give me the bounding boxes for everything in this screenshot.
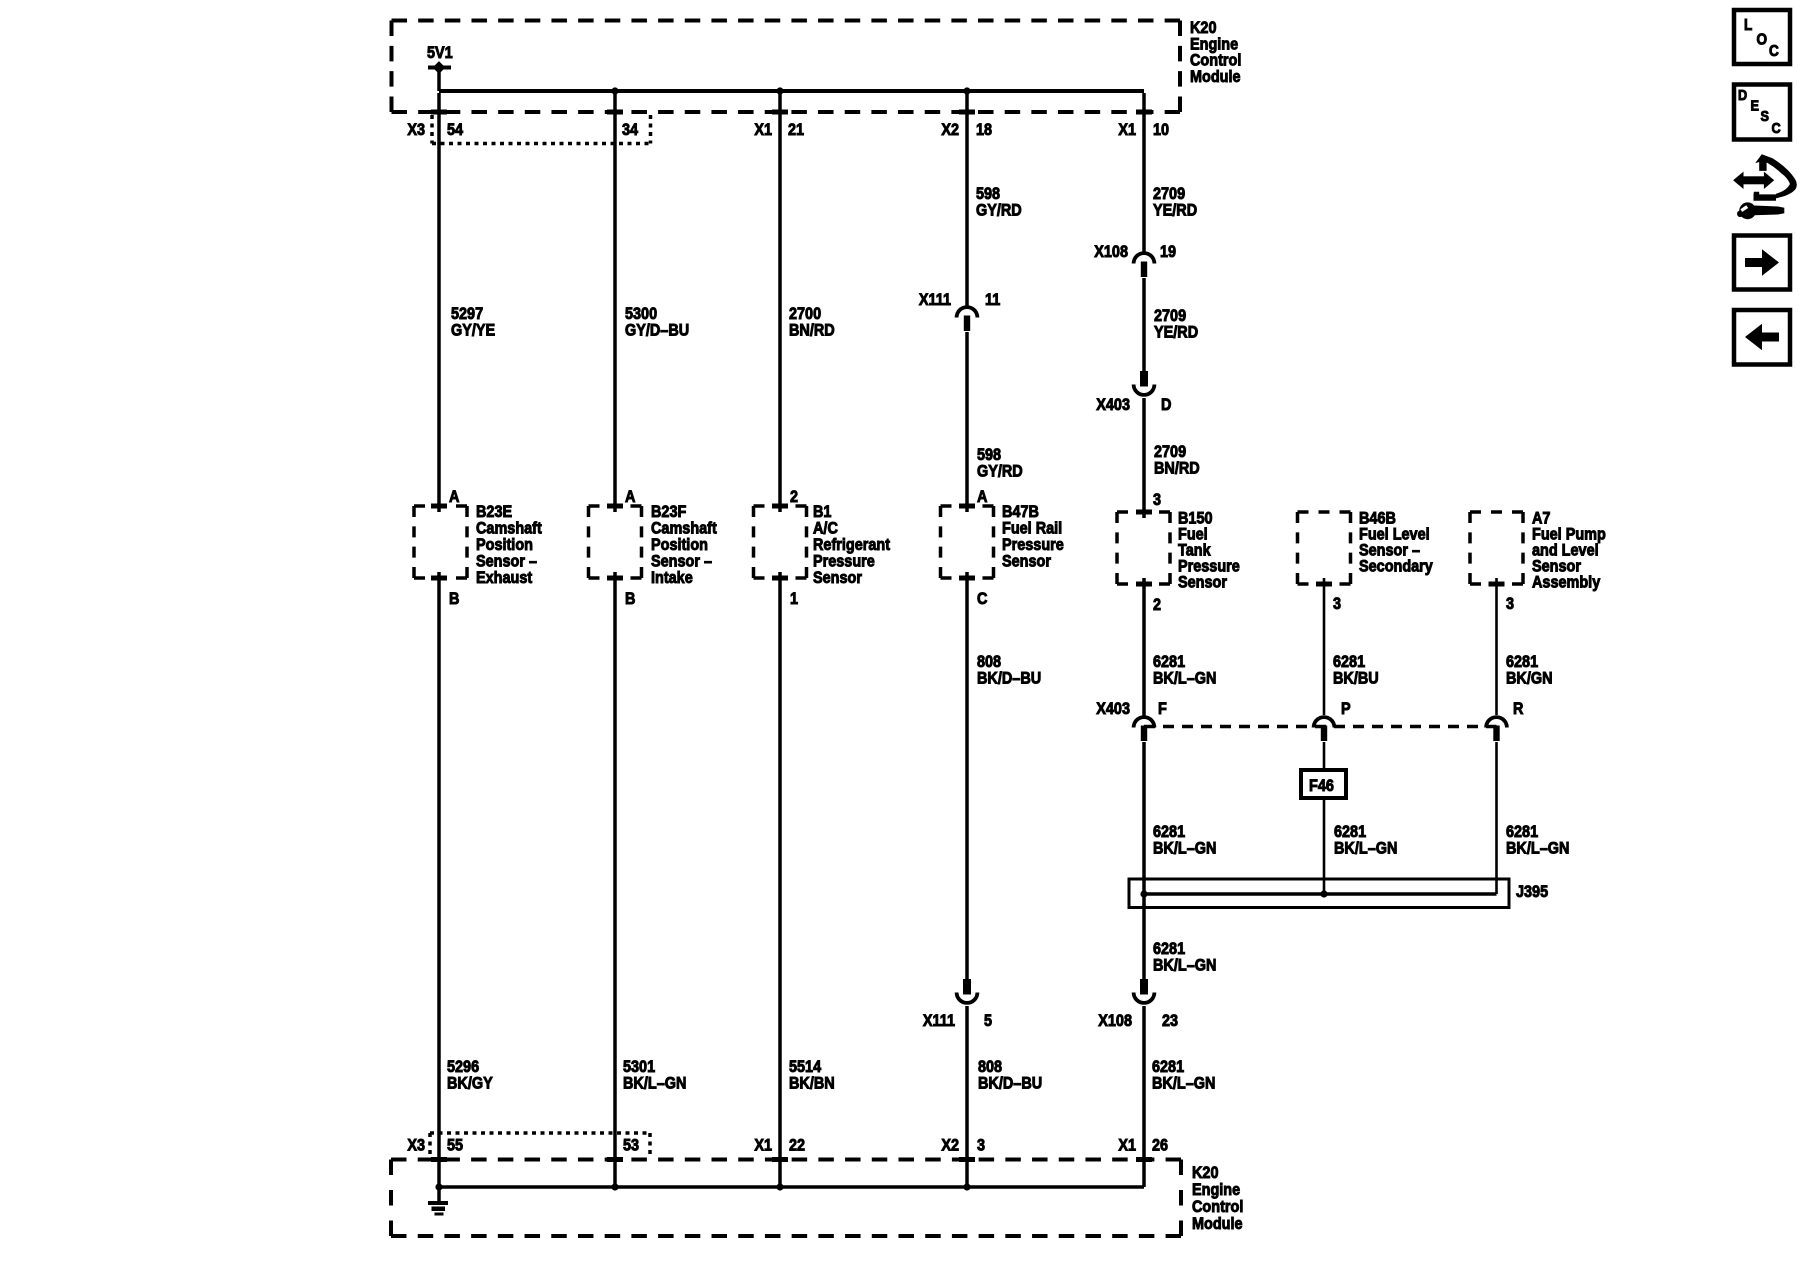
- svg-text:GY/YE: GY/YE: [451, 321, 495, 339]
- connector X111 pin 5: [957, 979, 978, 1003]
- junction node on bus at wire 34: [611, 87, 618, 94]
- svg-text:55: 55: [447, 1136, 463, 1154]
- nav icon jump-to glyph (arrows and wrench): [1733, 154, 1797, 219]
- junction node ground bus at wire 22: [776, 1183, 783, 1190]
- wire 5297 GY/YE (ECM X3-54 to B23E): [437, 93, 441, 512]
- svg-text:GY/RD: GY/RD: [977, 462, 1023, 480]
- svg-text:Secondary: Secondary: [1359, 557, 1433, 575]
- svg-text:A: A: [625, 488, 635, 506]
- svg-text:23: 23: [1162, 1012, 1178, 1030]
- wire 2709 YE/RD upper (ECM X1-10 to X108): [1142, 93, 1146, 252]
- B23F text: [651, 503, 717, 587]
- wire label 2709 YE/RD (mid): [1154, 307, 1198, 342]
- connector X403 pin P label: [1341, 700, 1351, 718]
- connector X111 pin 5 labels: [923, 1012, 992, 1030]
- connector X403 pin F labels: [1096, 700, 1167, 718]
- wire 6281 BK/L-GN (J395 to X108-23): [1142, 894, 1146, 979]
- svg-text:2: 2: [790, 488, 798, 506]
- wire 808 BK/D-BU lower (X111-5 to ECM X2-3): [965, 1006, 969, 1187]
- svg-text:YE/RD: YE/RD: [1153, 201, 1197, 219]
- ECM K20 label (bottom): [1192, 1164, 1243, 1233]
- B1 pin 1 label: [790, 590, 798, 608]
- svg-text:D: D: [1161, 396, 1171, 414]
- svg-text:Exhaust: Exhaust: [476, 569, 533, 587]
- connector X108 pin 23: [1134, 979, 1155, 1003]
- wire 6281 BK/BU (B46B-3 to X403-P): [1323, 578, 1326, 715]
- B1 pin 2 label: [790, 488, 798, 506]
- wire label 2709 YE/RD (upper): [1153, 185, 1197, 220]
- svg-text:X111: X111: [919, 291, 951, 309]
- wire 2709 YE/RD mid (X108-19 to X403): [1142, 278, 1146, 371]
- wire 5301 BK/L-GN (B23F-B to ECM X3-53): [613, 572, 617, 1187]
- svg-text:BN/RD: BN/RD: [1154, 459, 1200, 477]
- svg-text:F: F: [1158, 700, 1167, 718]
- junction node on bus at wire 18: [963, 87, 970, 94]
- B46B pin 3 label: [1333, 595, 1341, 613]
- svg-text:X1: X1: [1118, 121, 1136, 139]
- connector X111 pin 11 labels: [919, 291, 1001, 309]
- nav icon back arrow box: [1734, 310, 1790, 365]
- svg-text:Sensor: Sensor: [1178, 573, 1227, 591]
- svg-text:Sensor: Sensor: [1002, 552, 1051, 570]
- svg-text:X403: X403: [1096, 700, 1130, 718]
- svg-text:B: B: [625, 590, 635, 608]
- svg-text:C: C: [1772, 119, 1781, 136]
- wire label 5300 GY/D-BU: [625, 305, 689, 340]
- A7 text: [1532, 509, 1606, 591]
- B23E pin B label: [449, 590, 459, 608]
- wire label 808 BK/D-BU (upper): [977, 653, 1041, 688]
- wire 6281 BK/L-GN (F46 to J395): [1323, 798, 1326, 894]
- svg-text:5: 5: [984, 1012, 992, 1030]
- junction node J395 at P wire: [1320, 890, 1327, 897]
- B23E pin A label: [449, 488, 459, 506]
- B47B pin C label: [977, 590, 987, 608]
- wire 6281 BK/L-GN (B150-2 to X403-F): [1142, 578, 1146, 716]
- svg-text:X111: X111: [923, 1012, 955, 1030]
- wire label 6281 BK/L-GN (bottom): [1152, 1058, 1215, 1093]
- nav icon DESC box: [1734, 85, 1790, 140]
- wire 6281 BK/GN (A7-3 to X403-R): [1495, 578, 1498, 715]
- svg-text:X108: X108: [1098, 1012, 1132, 1030]
- connector X403 pin F: [1134, 717, 1155, 741]
- wire 6281 BK/L-GN (X403-F to J395): [1142, 742, 1146, 894]
- svg-text:BK/L–GN: BK/L–GN: [1153, 839, 1216, 857]
- svg-text:2: 2: [1153, 596, 1161, 614]
- nav icon forward arrow box: [1734, 236, 1790, 290]
- svg-text:Module: Module: [1192, 1215, 1243, 1233]
- connector X403 pin D: [1134, 371, 1155, 395]
- svg-text:5V1: 5V1: [427, 44, 453, 62]
- svg-text:BK/L–GN: BK/L–GN: [1152, 1074, 1215, 1092]
- wire 2709 BN/RD (X403-D to B150): [1142, 398, 1146, 518]
- svg-text:11: 11: [985, 291, 1000, 309]
- connector X108 pin 19 labels: [1094, 243, 1176, 261]
- svg-text:K20: K20: [1192, 1164, 1219, 1182]
- B46B text: [1359, 509, 1433, 575]
- ground bus inside ECM: [439, 1185, 1144, 1189]
- svg-text:X403: X403: [1096, 396, 1130, 414]
- svg-text:X1: X1: [1118, 1136, 1136, 1154]
- wire label 2709 BN/RD: [1154, 443, 1200, 478]
- wire: 5V reference bus inside ECM: [439, 89, 1144, 93]
- connector X108 pin 19: [1134, 253, 1155, 277]
- svg-text:YE/RD: YE/RD: [1154, 323, 1198, 341]
- connector X3 pin group dotted box (top): [432, 115, 651, 144]
- svg-text:BK/L–GN: BK/L–GN: [623, 1074, 686, 1092]
- pin ticks at ECM (top) edge: [431, 110, 1152, 115]
- camshaft position sensor exhaust B23E box: [414, 504, 467, 581]
- wire 5514 BK/BN (B1-1 to ECM X1-22): [778, 572, 782, 1187]
- svg-text:P: P: [1341, 700, 1351, 718]
- J395 internal bus: [1144, 892, 1497, 896]
- svg-text:R: R: [1513, 700, 1524, 718]
- wire label 6281 BK/L-GN (B150 leg): [1153, 653, 1216, 688]
- svg-text:J395: J395: [1516, 883, 1548, 901]
- svg-text:BK/D–BU: BK/D–BU: [978, 1074, 1042, 1092]
- B23E text: [476, 503, 542, 587]
- svg-text:BK/BU: BK/BU: [1333, 669, 1379, 687]
- ground junction block J395 box: [1129, 879, 1509, 908]
- junction node ground bus at wire 53: [611, 1183, 618, 1190]
- wire label 5301 BK/L-GN: [623, 1058, 686, 1093]
- wire 6281 BK/L-GN (X108-23 to ECM X1-26): [1142, 1006, 1146, 1187]
- svg-text:Assembly: Assembly: [1532, 573, 1600, 591]
- svg-text:C: C: [977, 590, 987, 608]
- wire label 6281 BK/L-GN (below J395): [1153, 940, 1216, 975]
- svg-text:BK/L–GN: BK/L–GN: [1334, 839, 1397, 857]
- svg-text:D: D: [1738, 86, 1747, 103]
- wire 6281 BK/L-GN (X403-R to J395): [1495, 742, 1498, 894]
- svg-text:X1: X1: [754, 121, 772, 139]
- svg-text:3: 3: [1333, 595, 1341, 613]
- svg-text:A: A: [977, 488, 987, 506]
- svg-text:BK/GN: BK/GN: [1506, 669, 1553, 687]
- svg-text:Sensor: Sensor: [813, 569, 862, 587]
- svg-text:BK/BN: BK/BN: [789, 1074, 835, 1092]
- B23F pin B label: [625, 590, 635, 608]
- wire label 6281 BK/L-GN (P leg): [1334, 823, 1397, 858]
- wire label 598 GY/RD (upper): [976, 185, 1022, 220]
- wire 5300 GY/D-BU (ECM X3-34 to B23F): [613, 93, 617, 512]
- wire 6281 BK/L-GN (X403-P to F46): [1323, 742, 1326, 770]
- ground symbol: [428, 1187, 448, 1216]
- wire 808 BK/D-BU upper (B47B-C to X111-5): [965, 572, 969, 979]
- fuel rail pressure sensor B47B box: [941, 504, 994, 581]
- connector X3 pin group dotted box (bottom): [430, 1133, 650, 1158]
- ECM K20 label (top): [1190, 19, 1241, 86]
- connector X108 pin 23 labels: [1098, 1012, 1178, 1030]
- wire 5296 BK/GY (B23E-B to ECM X3-55): [437, 572, 441, 1187]
- A7 pin 3 label: [1506, 595, 1514, 613]
- A/C refrigerant pressure sensor B1 box: [754, 504, 807, 581]
- svg-text:19: 19: [1160, 243, 1176, 261]
- B150 pin 3 label: [1153, 491, 1161, 509]
- ECM module K20 (top) dashed box: [392, 21, 1181, 113]
- pin ticks at ECM (bottom) edge: [431, 1157, 1152, 1162]
- svg-text:GY/D–BU: GY/D–BU: [625, 321, 689, 339]
- connector X403 pin P: [1314, 717, 1335, 741]
- svg-text:Engine: Engine: [1192, 1181, 1240, 1199]
- svg-text:BK/GY: BK/GY: [447, 1074, 493, 1092]
- svg-text:S: S: [1761, 107, 1770, 124]
- B23F pin A label: [625, 488, 635, 506]
- ECM module K20 (bottom) dashed box: [391, 1160, 1181, 1237]
- wire label 6281 BK/BU: [1333, 653, 1379, 688]
- B47B text: [1002, 503, 1064, 571]
- connector X403 pin D labels: [1096, 396, 1171, 414]
- svg-text:Control: Control: [1192, 1198, 1243, 1216]
- wire 598 GY/RD upper (ECM X2-18 to X111): [965, 93, 969, 306]
- svg-text:3: 3: [1506, 595, 1514, 613]
- fuse F46 label: [1309, 777, 1334, 795]
- B1 text: [813, 503, 891, 587]
- J395 label: [1516, 883, 1548, 901]
- power 5V1: [427, 44, 453, 91]
- fuel tank pressure sensor B150 box: [1117, 510, 1170, 587]
- wire label 5296 BK/GY: [447, 1058, 493, 1093]
- svg-text:Module: Module: [1190, 68, 1241, 86]
- svg-text:BK/L–GN: BK/L–GN: [1506, 839, 1569, 857]
- wire label 808 BK/D-BU (lower): [978, 1058, 1042, 1093]
- svg-text:Intake: Intake: [651, 569, 693, 587]
- camshaft position sensor intake B23F box: [589, 504, 642, 581]
- B47B pin A label: [977, 488, 987, 506]
- junction node ground bus at wire 55: [435, 1183, 442, 1190]
- fuse F46 box: [1301, 770, 1346, 798]
- svg-text:26: 26: [1152, 1136, 1168, 1154]
- wire label 6281 BK/GN: [1506, 653, 1553, 688]
- wire label 2700 BN/RD: [789, 305, 835, 340]
- svg-text:34: 34: [622, 121, 638, 139]
- svg-text:3: 3: [977, 1136, 985, 1154]
- junction node J395 at F wire: [1140, 890, 1147, 897]
- B150 text: [1178, 509, 1240, 591]
- nav icon LOC box: [1734, 10, 1790, 64]
- svg-text:10: 10: [1153, 121, 1169, 139]
- svg-text:BK/D–BU: BK/D–BU: [977, 669, 1041, 687]
- wire 598 GY/RD lower (X111-11 to B47B): [965, 332, 969, 512]
- svg-text:B: B: [449, 590, 459, 608]
- svg-text:54: 54: [447, 121, 463, 139]
- junction node on bus at wire 21: [776, 87, 783, 94]
- ECM bottom pin row labels: [407, 1136, 1168, 1154]
- svg-text:X108: X108: [1094, 243, 1128, 261]
- svg-text:22: 22: [789, 1136, 805, 1154]
- svg-text:X3: X3: [407, 1136, 425, 1154]
- fuel level sensor secondary B46B box: [1298, 512, 1351, 587]
- connector X403 pin R: [1486, 717, 1507, 741]
- svg-text:BK/L–GN: BK/L–GN: [1153, 669, 1216, 687]
- svg-text:F46: F46: [1309, 777, 1334, 795]
- connector X111 pin 11: [957, 307, 978, 331]
- svg-text:E: E: [1751, 96, 1760, 113]
- svg-text:53: 53: [623, 1136, 639, 1154]
- connector X403 inline dashed link: [1144, 725, 1497, 729]
- svg-text:A: A: [449, 488, 459, 506]
- svg-text:21: 21: [788, 121, 804, 139]
- svg-text:X3: X3: [407, 121, 425, 139]
- junction node ground bus at wire 3: [963, 1183, 970, 1190]
- svg-text:X1: X1: [754, 1136, 772, 1154]
- ECM top pin row labels: [407, 121, 1169, 139]
- svg-text:3: 3: [1153, 491, 1161, 509]
- wire label 6281 BK/L-GN (F leg): [1153, 823, 1216, 858]
- svg-text:C: C: [1769, 43, 1779, 60]
- svg-text:L: L: [1744, 17, 1752, 34]
- svg-text:X2: X2: [941, 1136, 959, 1154]
- svg-text:18: 18: [976, 121, 992, 139]
- svg-text:O: O: [1757, 32, 1768, 49]
- svg-text:BN/RD: BN/RD: [789, 321, 835, 339]
- svg-text:GY/RD: GY/RD: [976, 201, 1022, 219]
- wire label 598 GY/RD (lower): [977, 446, 1023, 481]
- wire 2700 BN/RD (ECM X1-21 to B1): [778, 93, 782, 512]
- svg-text:BK/L–GN: BK/L–GN: [1153, 956, 1216, 974]
- wire label 6281 BK/L-GN (R leg): [1506, 823, 1569, 858]
- fuel pump and level sensor assembly A7 box: [1470, 512, 1523, 587]
- svg-text:1: 1: [790, 590, 798, 608]
- connector X403 pin R label: [1513, 700, 1524, 718]
- wire label 5514 BK/BN: [789, 1058, 835, 1093]
- B150 pin 2 label: [1153, 596, 1161, 614]
- wire label 5297 GY/YE: [451, 305, 495, 340]
- svg-text:X2: X2: [941, 121, 959, 139]
